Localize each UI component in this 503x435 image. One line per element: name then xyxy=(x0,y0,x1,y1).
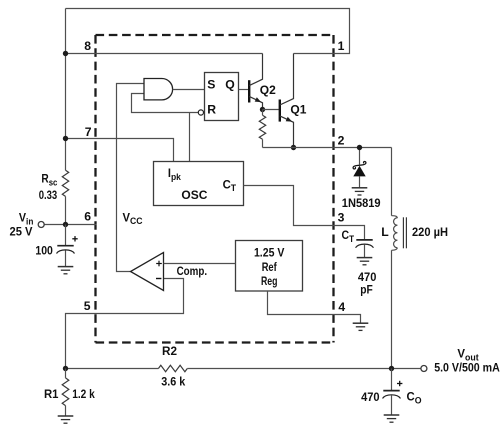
svg-text:2: 2 xyxy=(338,134,345,148)
svg-text:5: 5 xyxy=(84,299,91,313)
svg-text:8: 8 xyxy=(84,39,91,53)
svg-text:L: L xyxy=(381,225,389,239)
svg-text:OSC: OSC xyxy=(181,188,207,202)
svg-text:470: 470 xyxy=(361,390,380,404)
svg-text:S: S xyxy=(207,78,215,92)
svg-text:R1: R1 xyxy=(44,387,59,401)
svg-text:R: R xyxy=(207,103,216,117)
svg-text:4: 4 xyxy=(338,300,345,314)
svg-text:7: 7 xyxy=(85,125,92,139)
svg-text:R2: R2 xyxy=(162,344,177,358)
svg-text:Reg: Reg xyxy=(261,274,278,288)
svg-text:0.33: 0.33 xyxy=(39,188,58,202)
svg-text:Q1: Q1 xyxy=(290,103,306,117)
svg-text:1: 1 xyxy=(338,39,345,53)
svg-text:Q: Q xyxy=(225,78,234,92)
svg-text:1.25 V: 1.25 V xyxy=(254,245,285,259)
svg-text:3: 3 xyxy=(338,210,345,224)
svg-text:pF: pF xyxy=(360,283,373,297)
svg-text:3.6 k: 3.6 k xyxy=(161,375,185,389)
svg-text:1N5819: 1N5819 xyxy=(342,196,381,210)
svg-text:Ref: Ref xyxy=(262,260,278,274)
svg-text:220 µH: 220 µH xyxy=(412,225,448,239)
svg-text:1.2 k: 1.2 k xyxy=(72,387,95,401)
svg-text:100: 100 xyxy=(35,244,53,258)
svg-text:5.0 V/500 mA: 5.0 V/500 mA xyxy=(434,360,500,374)
svg-text:6: 6 xyxy=(84,210,91,224)
svg-text:25 V: 25 V xyxy=(10,225,34,239)
svg-text:Comp.: Comp. xyxy=(177,264,208,278)
svg-text:Q2: Q2 xyxy=(260,83,276,97)
